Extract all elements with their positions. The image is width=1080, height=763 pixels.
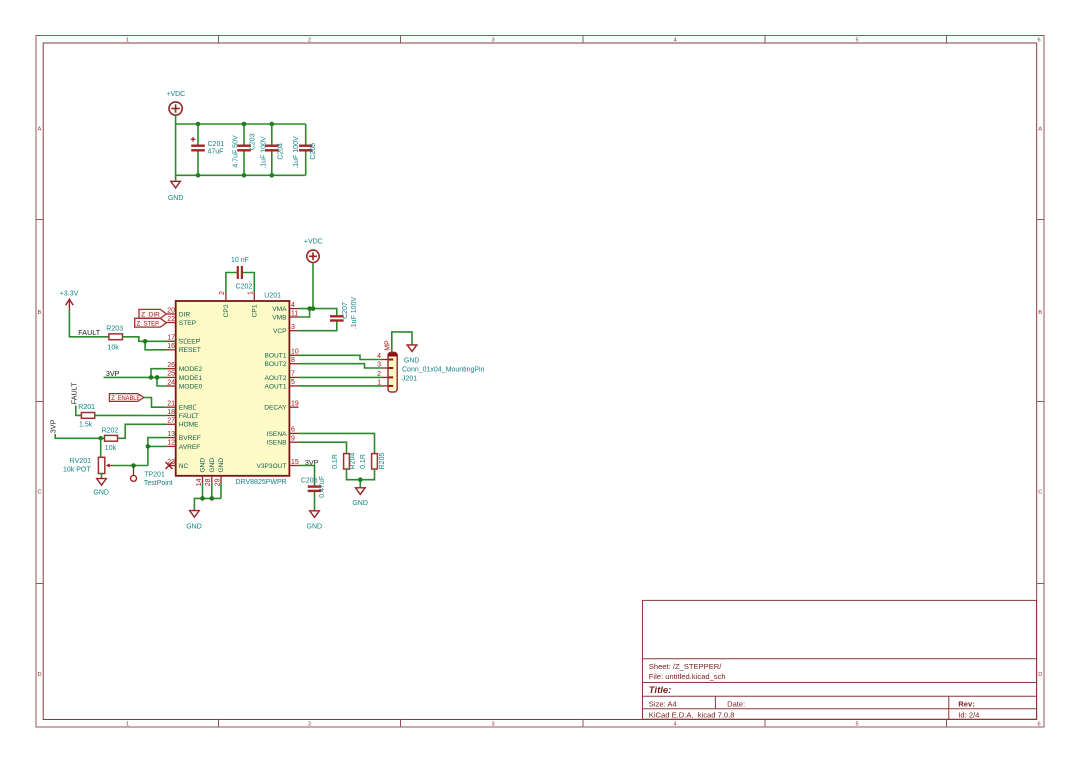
svg-text:C205: C205 — [310, 143, 317, 160]
svg-text:ENBL: ENBL — [179, 405, 197, 412]
U201 pin 15 V3P3OUT — [256, 459, 298, 470]
wire +VDC down to GND (left vertical of cap bank) — [175, 115, 177, 180]
svg-text:24: 24 — [167, 379, 175, 386]
svg-text:+3.3V: +3.3V — [60, 291, 79, 298]
wire R201 to FAULT pin 18 — [95, 414, 167, 416]
svg-text:FAULT: FAULT — [78, 328, 100, 337]
junction dots cap bank — [196, 122, 274, 178]
svg-text:.1uF 100V: .1uF 100V — [351, 297, 358, 330]
svg-text:+VDC: +VDC — [304, 238, 323, 245]
power symbol +3.3V — [60, 291, 79, 310]
svg-text:0.1R: 0.1R — [360, 454, 367, 469]
svg-text:1: 1 — [126, 722, 129, 728]
wire R204/R205 bottoms to ground — [347, 469, 375, 480]
svg-text:10k POT: 10k POT — [63, 466, 91, 473]
wire pot bottom to ground — [101, 474, 103, 479]
svg-text:5: 5 — [855, 38, 858, 44]
svg-text:3: 3 — [491, 722, 494, 728]
svg-text:15: 15 — [291, 459, 299, 466]
svg-text:17: 17 — [167, 335, 175, 342]
svg-text:1: 1 — [126, 38, 129, 44]
svg-text:Sheet: /Z_STEPPER/: Sheet: /Z_STEPPER/ — [649, 662, 722, 671]
svg-text:Size: A4: Size: A4 — [649, 699, 677, 708]
power symbol +VDC (top-left) — [166, 91, 185, 115]
svg-text:C204: C204 — [277, 143, 284, 160]
svg-text:GND: GND — [93, 490, 109, 497]
svg-text:NC: NC — [179, 463, 189, 470]
wire BOUT2 to J201 pin 3 — [299, 364, 383, 368]
svg-text:3VP: 3VP — [49, 419, 58, 433]
svg-text:+VDC: +VDC — [166, 91, 185, 98]
svg-text:GND: GND — [352, 500, 368, 507]
svg-text:Rev:: Rev: — [958, 699, 974, 708]
svg-text:Date:: Date: — [727, 699, 745, 708]
U201 pin 23 NC with no-connect X — [166, 459, 189, 470]
svg-text:21: 21 — [167, 401, 175, 408]
junction R202 left — [98, 436, 103, 441]
wire +VDC down to VMA — [312, 263, 314, 309]
svg-text:TestPoint: TestPoint — [144, 480, 173, 487]
U201 pin 28 GND (bottom) — [205, 458, 216, 487]
svg-text:C206: C206 — [301, 477, 318, 484]
U201 pin 24 MODE0 — [167, 379, 203, 390]
svg-text:9: 9 — [291, 436, 295, 443]
svg-text:1.5k: 1.5k — [79, 422, 93, 429]
svg-text:KiCad E.D.A. kicad 7.0.8: KiCad E.D.A. kicad 7.0.8 — [649, 710, 735, 719]
svg-text:GND: GND — [218, 458, 225, 473]
svg-text:10: 10 — [291, 349, 299, 356]
svg-text:R205: R205 — [379, 453, 386, 470]
svg-text:J201: J201 — [402, 375, 417, 382]
U201 pin 18 FAULT — [167, 409, 199, 420]
svg-text:RESET: RESET — [179, 347, 201, 354]
svg-text:D: D — [1038, 672, 1042, 678]
svg-text:Id: 2/4: Id: 2/4 — [958, 710, 979, 719]
wire ISENB to R204 — [299, 442, 347, 453]
junction AVREF — [146, 444, 151, 449]
ground GND (C206) — [307, 511, 323, 531]
svg-text:4.7uF 50V: 4.7uF 50V — [232, 135, 239, 168]
wire R203 to SLEEP/RESET pins — [123, 337, 167, 342]
svg-text:VMA: VMA — [272, 306, 287, 313]
wire junction down to potentiometer — [100, 438, 102, 457]
svg-text:2: 2 — [308, 722, 311, 728]
U201 pin 14 GND (bottom) — [196, 458, 207, 487]
svg-text:GND: GND — [200, 458, 207, 473]
junction SLEEP net — [143, 339, 148, 344]
svg-text:R204: R204 — [350, 453, 357, 470]
wire 3VP to MODE1 — [104, 376, 167, 378]
U201 pin 21 ENBL — [167, 401, 197, 412]
svg-text:STEP: STEP — [179, 320, 197, 327]
svg-text:0.47uF: 0.47uF — [319, 476, 326, 498]
capacitor C203 4.7uF 50V — [232, 124, 256, 175]
svg-text:Z_DIR: Z_DIR — [141, 312, 160, 319]
wire AOUT1 to J201 pin 1 — [299, 385, 383, 387]
U201 pin 16 RESET — [167, 343, 201, 354]
svg-text:BVREF: BVREF — [179, 435, 201, 442]
svg-text:6: 6 — [291, 427, 295, 434]
svg-text:MP: MP — [384, 340, 391, 351]
resistor R201 1.5k — [78, 404, 95, 429]
svg-text:ISENA: ISENA — [267, 431, 287, 438]
U201 pin 2 CP2 (top) — [219, 291, 230, 317]
ground GND (pot) — [93, 479, 109, 497]
wire IC bottom GND bus — [194, 483, 221, 510]
svg-text:R201: R201 — [78, 404, 95, 411]
wire top rail — [176, 123, 306, 125]
wire pot wiper to TP/BVREF — [113, 465, 148, 467]
svg-text:16: 16 — [167, 343, 175, 350]
svg-text:FAULT: FAULT — [179, 413, 199, 420]
power symbol +VDC (right) — [304, 238, 323, 262]
svg-text:18: 18 — [167, 409, 175, 416]
svg-text:4: 4 — [673, 722, 676, 728]
svg-text:19: 19 — [291, 401, 299, 408]
U201 pin 13 BVREF — [167, 431, 201, 442]
svg-text:B: B — [1038, 310, 1042, 316]
svg-text:HOME: HOME — [179, 422, 199, 429]
svg-text:13: 13 — [167, 431, 175, 438]
wire AOUT2 to J201 pin 2 — [299, 376, 383, 378]
svg-text:Conn_01x04_MountingPin: Conn_01x04_MountingPin — [402, 366, 485, 373]
wire CP1 to C202 — [243, 273, 254, 293]
U201 pin 22 STEP — [167, 316, 197, 327]
potentiometer RV201 10k POT — [63, 457, 113, 473]
svg-text:GND: GND — [307, 524, 323, 531]
svg-text:AOUT2: AOUT2 — [265, 375, 287, 382]
resistor R204 0.1R — [332, 453, 357, 470]
junctions GND bus — [200, 496, 205, 501]
svg-text:AVREF: AVREF — [179, 444, 201, 451]
svg-text:U201: U201 — [264, 293, 281, 300]
wire CP2 to C202 — [226, 273, 237, 293]
U201 pin 11 VMB — [272, 310, 298, 321]
U201 pin 6 ISENA — [267, 427, 299, 438]
svg-text:10k: 10k — [108, 344, 120, 351]
svg-text:V3P3OUT: V3P3OUT — [256, 463, 286, 470]
wire branch to MODE0 — [157, 377, 167, 386]
U201 pin 19 DECAY — [264, 401, 299, 412]
ground GND (IC bottom) — [186, 511, 202, 531]
connector J201 Conn_01x04_MountingPin — [377, 340, 485, 392]
U201 pin 7 AOUT2 — [265, 371, 299, 382]
test point TP201 — [131, 466, 173, 488]
svg-text:8: 8 — [291, 357, 295, 364]
svg-text:GND: GND — [404, 357, 420, 364]
wire V3P3OUT to C206 — [299, 466, 315, 486]
svg-text:VCP: VCP — [273, 328, 287, 335]
svg-text:.1uF 100V: .1uF 100V — [260, 136, 267, 169]
U201 pin 4 VMA — [272, 302, 298, 313]
U201 pin 5 AOUT1 — [265, 379, 299, 390]
wire Z_ENABLE to ENBL pin 21 — [144, 398, 167, 408]
svg-text:Z_STEP: Z_STEP — [137, 320, 160, 327]
capacitor C201 47uF (polarized) — [191, 124, 225, 175]
svg-text:D: D — [37, 672, 41, 678]
wire FAULT to R201 — [76, 406, 82, 416]
svg-text:BOUT1: BOUT1 — [265, 353, 287, 360]
svg-text:27: 27 — [167, 418, 175, 425]
junctions VMA net — [307, 306, 312, 311]
svg-text:C202: C202 — [236, 284, 253, 291]
svg-text:R202: R202 — [102, 427, 119, 434]
svg-text:VMB: VMB — [272, 314, 287, 321]
resistor R205 0.1R — [360, 453, 386, 470]
wire VMB up to VMA — [299, 309, 310, 317]
global label Z_DIR — [139, 309, 166, 318]
svg-text:GND: GND — [186, 524, 202, 531]
svg-text:22: 22 — [167, 316, 175, 323]
capacitor C204 .1uF 100V — [260, 124, 284, 175]
wire up to BVREF/AVREF — [148, 438, 167, 466]
wire 3VP to R202 — [55, 434, 104, 438]
U201 pin 3 VCP — [273, 324, 299, 335]
svg-text:MODE2: MODE2 — [179, 366, 203, 373]
svg-text:7: 7 — [291, 371, 295, 378]
svg-text:Z_ENABLE: Z_ENABLE — [111, 395, 140, 402]
title block — [643, 600, 1037, 719]
svg-text:C203: C203 — [250, 133, 257, 150]
svg-text:CP1: CP1 — [252, 304, 259, 317]
svg-text:3: 3 — [291, 324, 295, 331]
ground GND (R204/R205) — [352, 488, 368, 507]
svg-text:5: 5 — [291, 379, 295, 386]
global label Z_ENABLE — [109, 394, 143, 402]
svg-text:GND: GND — [168, 195, 184, 202]
svg-text:20: 20 — [167, 307, 175, 314]
capacitor C207 .1uF 100V — [330, 297, 358, 330]
junction sense ground — [358, 477, 363, 482]
svg-text:0.1R: 0.1R — [332, 454, 339, 469]
IC U201 DRV8825PWPR body — [176, 293, 290, 487]
svg-text:26: 26 — [167, 362, 175, 369]
svg-text:C207: C207 — [342, 302, 349, 319]
svg-text:DIR: DIR — [179, 311, 191, 318]
svg-text:SLEEP: SLEEP — [179, 339, 201, 346]
svg-text:BOUT2: BOUT2 — [265, 361, 287, 368]
wire C207 to VCP pin 3 — [299, 321, 337, 330]
svg-text:TP201: TP201 — [144, 471, 165, 478]
U201 pin 25 MODE1 — [167, 371, 203, 382]
wire J201 MP to ground — [392, 332, 412, 353]
svg-text:DRV8825PWPR: DRV8825PWPR — [236, 479, 287, 486]
resistor R203 10k — [106, 325, 123, 351]
U201 pin 20 DIR — [167, 307, 191, 318]
U201 pin 17 SLEEP — [167, 335, 201, 346]
resistor R202 10k — [102, 427, 119, 452]
U201 pin 8 BOUT2 — [265, 357, 299, 368]
svg-text:12: 12 — [167, 440, 175, 447]
capacitor C205 .1uF 100V — [293, 124, 317, 175]
wire BOUT1 to J201 pin 4 — [299, 355, 383, 359]
svg-text:3: 3 — [491, 38, 494, 44]
svg-text:Title:: Title: — [649, 685, 672, 696]
wire R202 to HOME pin 27 — [118, 424, 167, 438]
junctions MODE net — [149, 375, 154, 380]
svg-text:10 nF: 10 nF — [231, 257, 249, 264]
wire ISENA to R205 — [299, 433, 375, 453]
svg-text:ISENB: ISENB — [267, 440, 287, 447]
wire C206 to ground — [314, 492, 316, 511]
wire branch to MODE2 — [151, 369, 167, 378]
svg-text:File: untitled.kicad_sch: File: untitled.kicad_sch — [649, 672, 726, 681]
svg-text:FAULT: FAULT — [69, 382, 78, 404]
U201 pin 1 CP1 (top) — [248, 291, 259, 317]
svg-text:10k: 10k — [105, 445, 117, 452]
svg-text:MODE1: MODE1 — [179, 375, 203, 382]
svg-text:C201: C201 — [208, 141, 225, 148]
U201 pin 27 HOME — [167, 418, 200, 429]
svg-text:C: C — [37, 490, 41, 496]
svg-text:5: 5 — [855, 722, 858, 728]
svg-text:AOUT1: AOUT1 — [265, 383, 287, 390]
U201 pin 26 MODE2 — [167, 362, 203, 373]
svg-text:6: 6 — [1037, 38, 1040, 44]
svg-text:11: 11 — [291, 310, 298, 317]
svg-text:B: B — [38, 310, 42, 316]
capacitor C202 10nF (above IC) — [231, 257, 252, 291]
svg-text:RV201: RV201 — [70, 458, 91, 465]
svg-text:4: 4 — [673, 38, 676, 44]
title block text — [649, 662, 980, 719]
U201 pin 9 ISENB — [267, 436, 299, 447]
svg-text:A: A — [38, 127, 42, 133]
U201 pin 12 AVREF — [167, 440, 201, 451]
svg-text:A: A — [1038, 127, 1042, 133]
svg-text:6: 6 — [1037, 722, 1040, 728]
svg-text:.1uF 100V: .1uF 100V — [293, 136, 300, 169]
svg-text:47uF: 47uF — [208, 149, 224, 156]
wire bottom rail — [176, 174, 306, 176]
ground GND (J201) — [407, 345, 417, 352]
capacitor C206 0.47uF — [301, 476, 326, 498]
svg-text:MODE0: MODE0 — [179, 383, 203, 390]
svg-text:C: C — [1038, 490, 1042, 496]
svg-text:DECAY: DECAY — [264, 405, 287, 412]
svg-text:R203: R203 — [106, 325, 123, 332]
ground GND (cap bank) — [168, 181, 184, 202]
wire +3.3V to R203 — [69, 310, 109, 337]
junction wiper/TP — [131, 463, 136, 468]
U201 pin 29 GND (bottom) — [214, 458, 225, 487]
svg-text:25: 25 — [167, 371, 175, 378]
wire VMA to C207 — [299, 309, 337, 316]
svg-text:2: 2 — [308, 38, 311, 44]
svg-text:CP2: CP2 — [223, 304, 230, 317]
svg-text:4: 4 — [291, 302, 295, 309]
U201 pin 10 BOUT1 — [265, 349, 299, 360]
global label Z_STEP — [135, 318, 167, 327]
svg-text:GND: GND — [209, 458, 216, 473]
